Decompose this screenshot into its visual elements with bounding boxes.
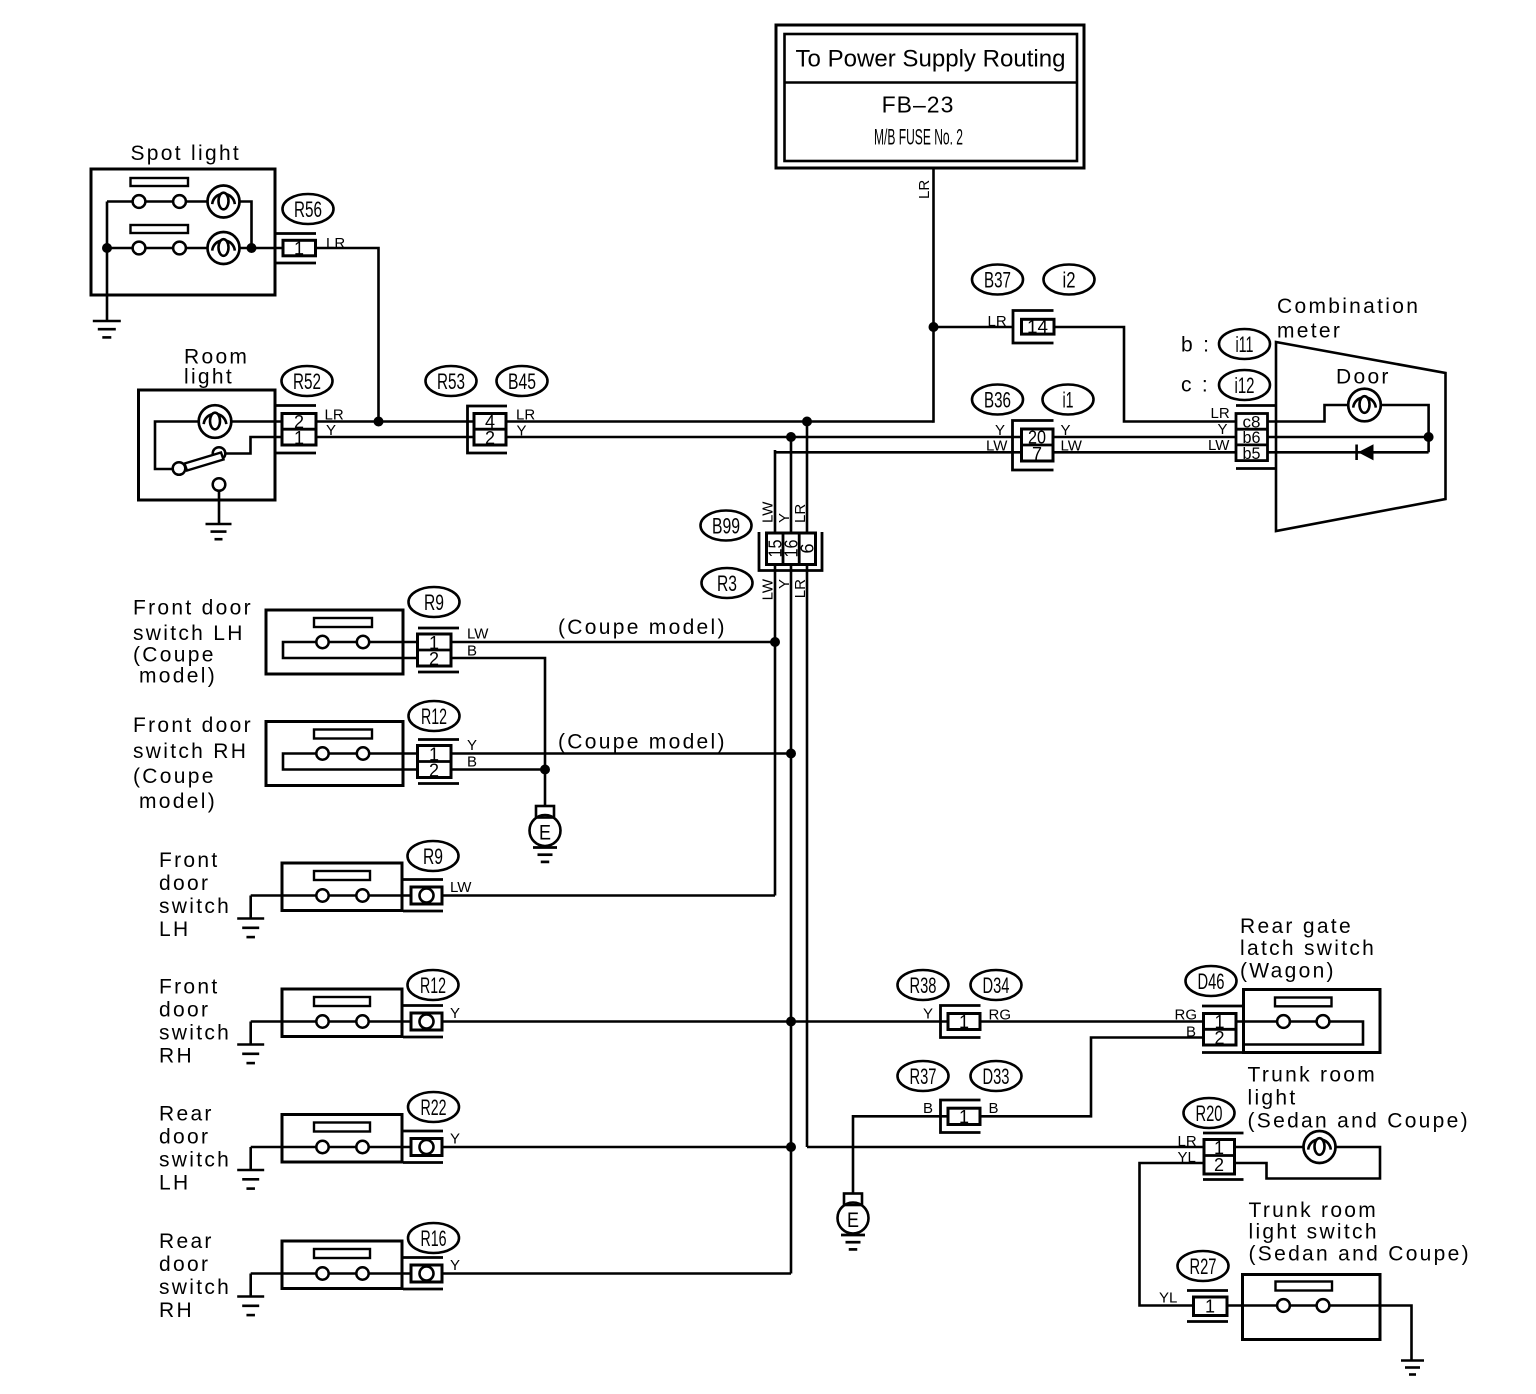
trunk room light switch bar — [1276, 1282, 1333, 1291]
svg-text:1: 1 — [959, 1012, 969, 1032]
front door switch RH contact circles — [316, 1015, 368, 1027]
front door switch LH box — [282, 863, 402, 911]
svg-text:Front door: Front door — [133, 597, 253, 620]
connector R22 oval (rear LH) — [408, 1092, 459, 1122]
front door switch LH coupe bar — [314, 618, 372, 627]
connector B99/R3 bracket — [759, 532, 822, 571]
svg-text:(Sedan and Coupe): (Sedan and Coupe) — [1248, 1110, 1470, 1133]
svg-text:Y: Y — [1218, 421, 1228, 438]
svg-text:D34: D34 — [983, 973, 1010, 998]
svg-text:LW: LW — [1208, 437, 1230, 454]
svg-text:LW: LW — [1061, 438, 1083, 455]
rear door switch LH connector bracket — [403, 1131, 443, 1163]
wire front door switch LH coupe LW to LW riser — [451, 641, 775, 644]
svg-text:LW: LW — [467, 626, 489, 643]
junction LR bus / spot light drop — [374, 417, 384, 427]
svg-text:To Power Supply Routing: To Power Supply Routing — [796, 46, 1066, 73]
wire from power supply FB-23 down to junction — [932, 168, 935, 327]
svg-text:Trunk room: Trunk room — [1249, 1199, 1379, 1222]
svg-text:R12: R12 — [420, 973, 446, 998]
svg-text:LR: LR — [1211, 405, 1230, 422]
connector 20/7 pin box — [1022, 428, 1054, 464]
svg-text:B37: B37 — [984, 268, 1011, 293]
connector R20 bracket — [1203, 1133, 1244, 1180]
svg-text:R16: R16 — [421, 1226, 447, 1251]
svg-text:1: 1 — [959, 1107, 969, 1127]
connector R9 oval (front LH) — [408, 841, 459, 871]
connector D46 oval — [1186, 966, 1237, 996]
connector R53/B45 pin box 4/2 — [474, 412, 506, 448]
rear door switch LH connector pin box — [411, 1139, 442, 1156]
svg-text:model): model) — [139, 790, 217, 813]
connector R12 coupe pin box 1/2 — [418, 744, 452, 780]
svg-text:i1: i1 — [1063, 388, 1074, 413]
wire Y bus from room light to combination meter b6 and door lamp — [316, 436, 1429, 439]
wire vertical from LR bus corner up to pin14 level — [932, 327, 935, 423]
wire LR riser from LR bus down to trunk room light feed — [806, 422, 809, 1148]
junction coupe B wires to ground — [540, 765, 550, 775]
wire front door switch LH coupe B down to shared ground node — [451, 658, 545, 770]
connector 14 bracket — [1013, 311, 1054, 344]
Combination meter label — [1277, 295, 1420, 343]
wire rear door switch LH to Y riser — [442, 1146, 791, 1149]
spot light ground — [93, 321, 121, 337]
svg-text:latch switch: latch switch — [1240, 937, 1376, 960]
svg-text:2: 2 — [485, 428, 495, 448]
connector R38 oval — [898, 970, 949, 1000]
svg-text:Y: Y — [467, 737, 477, 754]
svg-text:Y: Y — [450, 1131, 460, 1148]
svg-text:Rear: Rear — [159, 1103, 214, 1126]
svg-text:RH: RH — [159, 1045, 194, 1068]
svg-text:6: 6 — [798, 543, 818, 553]
svg-text:model): model) — [139, 665, 217, 688]
wire spot light R56 to LR bus drop — [316, 248, 379, 422]
room light lamp — [199, 405, 232, 438]
wire LW riser corner at LW bus — [774, 450, 777, 896]
connector R12 coupe bracket — [418, 740, 459, 784]
wire R37 connector B to E ground — [853, 1116, 948, 1193]
wire D46 pin 2 B down to R37/D33 connector — [981, 1038, 1204, 1117]
svg-text:Y: Y — [1061, 422, 1071, 439]
svg-text:R52: R52 — [293, 369, 321, 394]
Trunk room light switch (Sedan and Coupe) label — [1249, 1199, 1471, 1266]
connector R27 pin box 1 — [1194, 1297, 1228, 1317]
front door switch RH connector pin box — [411, 1013, 442, 1030]
svg-text:i2: i2 — [1063, 268, 1076, 293]
rear door switch RH bar — [314, 1249, 370, 1258]
svg-text:R20: R20 — [1196, 1101, 1223, 1126]
E ground for coupe switches — [530, 806, 561, 862]
svg-text:R27: R27 — [1190, 1254, 1217, 1279]
trunk room light switch ground — [1401, 1361, 1424, 1375]
connector R12 oval (coupe RH) — [409, 701, 460, 731]
svg-text:R9: R9 — [424, 590, 444, 615]
connector R9 coupe bracket — [418, 628, 459, 672]
wire LR riser to trunk room light R20 pin 1 — [807, 1146, 1204, 1149]
connector B45 oval — [497, 366, 548, 396]
rear gate latch switch bar — [1275, 998, 1332, 1007]
junction Y riser / coupe RH Y wire — [786, 749, 796, 759]
svg-text:LR: LR — [988, 313, 1007, 330]
rear door switch RH connector bracket — [403, 1258, 443, 1290]
svg-text:B45: B45 — [508, 369, 536, 394]
Rear door switch LH label — [159, 1103, 231, 1195]
connector R52 pin box 2/1 — [282, 412, 316, 448]
front door switch LH connector bracket — [403, 880, 443, 912]
svg-text:door: door — [159, 872, 210, 895]
svg-text:B99: B99 — [712, 514, 740, 539]
connector R56 pin box 1 — [283, 239, 316, 259]
front door switch LH coupe box — [266, 610, 403, 674]
svg-text:(Coupe model): (Coupe model) — [558, 616, 727, 639]
connector R9 coupe pin box 1/2 — [418, 633, 452, 669]
wire rear door switch RH to Y riser corner — [442, 1272, 791, 1275]
spot light switch bar 2 — [131, 225, 189, 233]
spot light internal wires — [107, 202, 285, 322]
svg-text:LR: LR — [916, 180, 933, 199]
Room light label — [184, 346, 249, 389]
connector R27 oval — [1178, 1251, 1229, 1281]
wire Y riser from Y bus down to rear door switch RH wire — [790, 437, 793, 1274]
svg-text:Combination: Combination — [1277, 295, 1420, 318]
svg-text:(Coupe: (Coupe — [133, 765, 216, 788]
svg-text:1: 1 — [1205, 1297, 1215, 1317]
connector R27 bracket — [1187, 1291, 1228, 1322]
front door switch RH internal wires — [251, 1022, 411, 1045]
svg-text:Front door: Front door — [133, 714, 253, 737]
svg-text:7: 7 — [1032, 444, 1042, 464]
svg-text:Rear gate: Rear gate — [1240, 915, 1353, 938]
junction LW riser / coupe LH LW wire — [770, 637, 780, 647]
connector R20 oval — [1184, 1098, 1235, 1128]
front door switch LH coupe contact circles — [316, 636, 369, 648]
front door switch LH connector pin box — [411, 887, 442, 904]
svg-text:Y: Y — [517, 422, 527, 439]
svg-text:door: door — [159, 1253, 210, 1276]
svg-text:R37: R37 — [910, 1064, 937, 1089]
svg-text:Y: Y — [326, 422, 336, 439]
connector R38/D34 pin box 1 — [948, 1012, 980, 1032]
svg-text:B: B — [1186, 1024, 1196, 1041]
wire front door switch LH to LW riser — [442, 894, 775, 897]
room light switch contacts — [173, 447, 226, 491]
room light switch lever — [185, 453, 224, 471]
connector R20 pin box 1/2 — [1204, 1138, 1235, 1175]
junction door lamp / b6 wire — [1424, 432, 1434, 442]
svg-text:(Coupe: (Coupe — [133, 644, 216, 667]
svg-text:door: door — [159, 999, 210, 1022]
junction spot light left bus row2 — [102, 243, 112, 253]
svg-text:B: B — [989, 1100, 999, 1117]
junction spot light lamp1 return — [247, 243, 257, 253]
front door switch RH bar — [314, 997, 370, 1006]
rear door switch LH bar — [314, 1123, 370, 1132]
svg-text:LR: LR — [792, 504, 809, 523]
svg-text:E: E — [847, 1209, 859, 1232]
front door switch RH ground — [237, 1045, 264, 1064]
spot light box — [91, 169, 275, 295]
connector R38/D34 bracket — [941, 1006, 981, 1038]
junction LR bus / LR riser — [802, 417, 812, 427]
front door switch RH coupe box — [266, 722, 403, 786]
svg-text:R53: R53 — [437, 369, 465, 394]
connector D34 oval — [971, 970, 1022, 1000]
rear door switch RH box — [282, 1241, 402, 1289]
E ground for R37 circuit — [838, 1194, 869, 1250]
svg-text:LW: LW — [760, 578, 777, 600]
junction Y bus / Y riser — [786, 432, 796, 442]
svg-text:LW: LW — [760, 501, 777, 523]
room light internal wires — [155, 422, 284, 524]
connector B99/R3 pin box 15/16/6 — [766, 533, 818, 565]
connector R37/D33 bracket — [941, 1100, 981, 1133]
combination meter pin cells c8/b6/b5 — [1236, 413, 1268, 463]
svg-text:Front: Front — [159, 976, 220, 999]
front door switch LH coupe internal wires — [283, 642, 418, 658]
svg-text:Trunk room: Trunk room — [1248, 1064, 1378, 1087]
svg-text:LW: LW — [986, 438, 1008, 455]
svg-text:door: door — [159, 1126, 210, 1149]
svg-text:Y: Y — [776, 513, 793, 523]
svg-text:LR: LR — [792, 579, 809, 598]
svg-text:R38: R38 — [910, 973, 937, 998]
svg-text:b5: b5 — [1243, 444, 1261, 463]
room light box — [139, 390, 276, 500]
combination meter body — [1276, 342, 1446, 531]
svg-text:meter: meter — [1277, 320, 1342, 343]
svg-text:switch RH: switch RH — [133, 740, 248, 763]
Front door switch RH label — [159, 976, 231, 1068]
svg-text:switch: switch — [159, 1022, 231, 1045]
svg-text:1: 1 — [294, 428, 304, 448]
connector R53/B45 bracket — [468, 406, 508, 453]
connector 20/7 bracket — [1013, 421, 1054, 471]
wire trunk lamp return loop to R20 pin 2 — [1235, 1147, 1381, 1179]
connector R37 oval — [898, 1061, 949, 1091]
front door switch RH coupe internal wires — [283, 754, 418, 770]
connector R52 bracket — [275, 406, 316, 454]
spot light switch contact circles — [133, 195, 186, 254]
rear gate latch switch internal wires — [1236, 1022, 1363, 1045]
combination meter connector bracket — [1236, 406, 1276, 469]
svg-text:Rear: Rear — [159, 1230, 214, 1253]
svg-text:YL: YL — [1178, 1149, 1196, 1166]
svg-text:1: 1 — [294, 239, 304, 259]
power supply routing box FB-23 — [776, 25, 1084, 168]
rear gate latch switch contact circles — [1277, 1015, 1329, 1028]
connector 14 pin box — [1022, 317, 1055, 337]
Trunk room light (Sedan and Coupe) label — [1248, 1064, 1470, 1133]
trunk room light switch contact circles — [1277, 1299, 1329, 1312]
svg-text:R12: R12 — [421, 704, 447, 729]
svg-text:LR: LR — [516, 407, 535, 424]
svg-text:FB–23: FB–23 — [882, 92, 955, 118]
svg-text:14: 14 — [1027, 317, 1048, 337]
svg-text:i11: i11 — [1236, 332, 1254, 357]
svg-text:b :: b : — [1181, 334, 1211, 357]
connector R56 oval — [283, 194, 334, 224]
rear door switch LH contact circles — [316, 1141, 368, 1153]
svg-text:R3: R3 — [717, 571, 737, 596]
connector R16 oval (rear RH) — [408, 1223, 459, 1253]
svg-text:R9: R9 — [423, 844, 443, 869]
connector i12 oval — [1219, 370, 1270, 400]
wire trunk room light switch to ground — [1330, 1306, 1412, 1361]
svg-text:RG: RG — [1175, 1007, 1198, 1024]
combination meter internal wires — [1267, 405, 1429, 452]
wire front door switch RH coupe Y to Y riser — [451, 752, 791, 755]
svg-text:Y: Y — [450, 1005, 460, 1022]
svg-text:B: B — [923, 1100, 933, 1117]
wire LR bus from room light to power-drop corner — [316, 420, 934, 423]
svg-text:(Wagon): (Wagon) — [1240, 960, 1336, 983]
connector R52 oval — [282, 366, 333, 396]
connector R53 oval — [426, 366, 477, 396]
svg-text:switch LH: switch LH — [133, 622, 245, 645]
junction power drop / connector 14 feed — [929, 322, 939, 332]
spot light lamp 1 — [208, 186, 240, 218]
svg-text:Door: Door — [1336, 366, 1391, 389]
svg-text:2: 2 — [1214, 1155, 1224, 1175]
svg-text:switch: switch — [159, 1149, 231, 1172]
svg-text:2: 2 — [1214, 1028, 1224, 1048]
trunk room light switch box — [1243, 1275, 1381, 1340]
svg-text:(Coupe model): (Coupe model) — [558, 731, 727, 754]
svg-text:light: light — [1248, 1087, 1298, 1110]
room light ground — [206, 524, 232, 539]
junction Y riser / rear LH wire — [786, 1142, 796, 1152]
svg-text:2: 2 — [429, 649, 439, 669]
front door switch LH internal wires — [251, 896, 411, 919]
svg-text:LR: LR — [1178, 1133, 1197, 1150]
svg-text:Y: Y — [776, 579, 793, 589]
svg-text:Y: Y — [450, 1257, 460, 1274]
Front door switch LH label — [159, 849, 231, 941]
connector R12 oval (front RH) — [408, 970, 459, 1000]
rear door switch RH contact circles — [316, 1267, 368, 1279]
svg-text:R22: R22 — [421, 1095, 447, 1120]
spot light lamp 2 — [208, 232, 240, 264]
front door switch RH connector bracket — [403, 1006, 443, 1038]
front door switch RH coupe bar — [314, 730, 372, 739]
connector B99 oval — [701, 511, 752, 541]
svg-text:Front: Front — [159, 849, 220, 872]
svg-text:LH: LH — [159, 1172, 190, 1195]
front door switch RH coupe contact circles — [316, 747, 369, 759]
svg-text:RG: RG — [989, 1007, 1012, 1024]
wire LW bus from B99 riser to combination meter b5 and diode — [775, 451, 1429, 454]
connector R9 oval (coupe LH) — [409, 587, 460, 617]
svg-text:Y: Y — [923, 1006, 933, 1023]
front door switch LH contact circles — [316, 889, 368, 901]
Front door switch RH (Coupe model) label — [133, 714, 253, 813]
svg-text:LR: LR — [326, 235, 345, 252]
connector i1 oval — [1043, 385, 1094, 415]
svg-text:light: light — [184, 366, 234, 389]
wire from connector 14 right then down to combination meter c8 — [1054, 327, 1268, 422]
svg-text:Spot light: Spot light — [131, 142, 242, 165]
connector i11 oval — [1219, 329, 1270, 359]
spot light switch bar 1 — [131, 178, 189, 186]
rear door switch RH internal wires — [251, 1274, 411, 1297]
svg-text:light switch: light switch — [1249, 1221, 1379, 1244]
svg-text:E: E — [539, 822, 551, 845]
svg-text:(Sedan and Coupe): (Sedan and Coupe) — [1249, 1243, 1471, 1266]
connector B37 oval — [972, 265, 1023, 295]
svg-text:YL: YL — [1159, 1290, 1177, 1307]
wire front door switch RH / Y bus to rear gate connector D46 pin 1 — [442, 1020, 1204, 1023]
Rear door switch RH label — [159, 1230, 231, 1322]
Front door switch LH (Coupe model) label — [133, 597, 253, 688]
connector D46 bracket — [1202, 1006, 1244, 1053]
trunk room light switch internal wires — [1227, 1304, 1317, 1307]
svg-text:switch: switch — [159, 895, 231, 918]
connector R56 bracket — [276, 234, 316, 264]
svg-text:D46: D46 — [1198, 969, 1225, 994]
rear door switch RH ground — [237, 1297, 264, 1316]
front door switch LH ground — [237, 919, 264, 938]
connector i2 oval — [1044, 265, 1095, 295]
connector R37/D33 pin box 1 — [948, 1107, 980, 1127]
svg-text:M/B FUSE No. 2: M/B FUSE No. 2 — [874, 125, 963, 150]
rear door switch LH internal wires — [251, 1147, 411, 1170]
svg-text:B: B — [467, 754, 477, 771]
trunk room light lamp — [1304, 1131, 1336, 1163]
svg-text:switch: switch — [159, 1276, 231, 1299]
wire front door switch RH coupe B to ground node E — [451, 768, 545, 771]
rear door switch LH box — [282, 1115, 402, 1163]
svg-text:c :: c : — [1181, 374, 1210, 397]
svg-text:D33: D33 — [983, 1064, 1010, 1089]
rear gate latch switch box — [1244, 990, 1381, 1053]
svg-text:LW: LW — [450, 879, 472, 896]
rear door switch LH ground — [237, 1170, 264, 1189]
connector B36 oval — [972, 385, 1023, 415]
connector D46 pin box 1/2 — [1204, 1012, 1237, 1048]
rear door switch RH connector pin box — [411, 1265, 442, 1282]
svg-text:i12: i12 — [1235, 373, 1255, 398]
Rear gate latch switch (Wagon) label — [1240, 915, 1376, 983]
wire R20 pin1 to trunk lamp — [1235, 1146, 1305, 1149]
diode on b5 line — [1357, 444, 1374, 460]
wire ground node down to E ground — [544, 770, 547, 807]
connector R3 oval — [702, 568, 753, 598]
svg-text:RH: RH — [159, 1299, 194, 1322]
svg-text:B: B — [467, 643, 477, 660]
svg-text:2: 2 — [429, 760, 439, 780]
connector D33 oval — [971, 1061, 1022, 1091]
wire R20 pin 2 YL down to R27 connector — [1140, 1163, 1205, 1306]
wire junction to B37 connector 14 — [934, 326, 1014, 329]
svg-text:Y: Y — [995, 422, 1005, 439]
front door switch LH bar — [314, 871, 370, 880]
svg-text:B36: B36 — [984, 388, 1011, 413]
svg-text:R56: R56 — [294, 197, 322, 222]
front door switch RH box — [282, 989, 402, 1037]
junction Y riser / front RH and R38 wire — [786, 1017, 796, 1027]
svg-text:LH: LH — [159, 918, 190, 941]
door lamp in combination meter — [1348, 389, 1381, 422]
